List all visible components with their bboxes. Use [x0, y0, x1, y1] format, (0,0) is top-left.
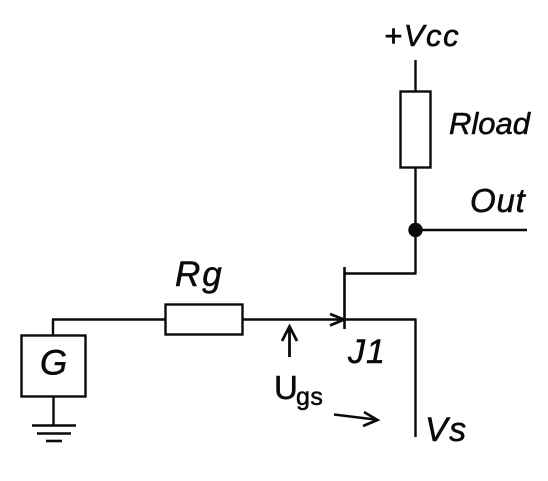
wire Out: [415, 229, 527, 232]
arrow at source (small right arrow): [334, 412, 378, 426]
transistor J1 channel bar: [343, 267, 346, 329]
svg-text:U: U: [274, 369, 298, 406]
svg-text:gs: gs: [296, 383, 323, 411]
source G box: [22, 336, 86, 397]
svg-text:Vs: Vs: [425, 411, 468, 449]
wire node to drain: [414, 230, 416, 273]
svg-text:Out: Out: [470, 182, 527, 219]
ground symbol: [32, 426, 76, 442]
svg-text:Rg: Rg: [175, 255, 224, 294]
resistor Rg: [166, 305, 243, 335]
svg-text:+Vcc: +Vcc: [384, 18, 460, 53]
node junction dot: [408, 223, 422, 237]
transistor J1 source lead: [344, 318, 417, 320]
svg-text:G: G: [40, 344, 67, 383]
svg-text:Rload: Rload: [449, 106, 532, 141]
wire G box to ground: [52, 396, 54, 426]
wire gate from Rg: [242, 318, 343, 320]
transistor J1 drain lead: [344, 272, 417, 274]
wire down to G box: [52, 319, 54, 336]
resistor Rload: [401, 92, 431, 168]
wire source down to Vs: [414, 320, 416, 438]
wire Rload to node: [414, 167, 416, 230]
wire Vcc to Rload: [414, 60, 416, 92]
svg-text:J1: J1: [347, 333, 386, 371]
arrow Ugs (up arrow): [282, 327, 297, 358]
gate arrowhead: [330, 314, 344, 326]
wire G box to Rg: [52, 318, 166, 320]
